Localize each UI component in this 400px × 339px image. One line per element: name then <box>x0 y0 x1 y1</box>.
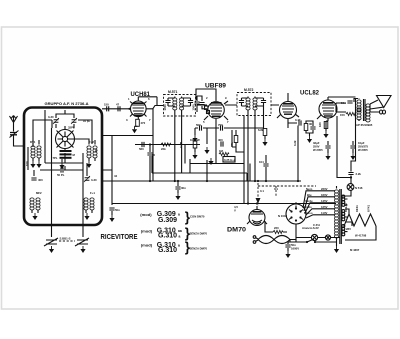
lamp <box>311 234 330 240</box>
trimmer capacitor CT2 <box>71 118 77 124</box>
ground under T4 <box>334 246 339 253</box>
svg-text:750: 750 <box>218 123 223 127</box>
tube V1 pin wires <box>57 126 90 152</box>
capacitor grid coupling <box>199 103 204 105</box>
UCH81 anode bar <box>133 102 144 104</box>
wires 2.2M branch <box>175 145 185 182</box>
T4 core <box>340 189 342 244</box>
wires UBF89 cathode down <box>207 128 216 164</box>
svg-text:0.47: 0.47 <box>295 118 301 122</box>
wire T1-T2 row <box>197 104 207 106</box>
svg-text:N 1043: N 1043 <box>278 214 287 218</box>
UCH81 grid lines <box>132 105 144 114</box>
capacitor 2.2k line <box>348 173 353 175</box>
svg-text:0.25 H+3: 0.25 H+3 <box>224 158 236 162</box>
T1 primary coil <box>173 98 177 110</box>
svg-text:CON DM70: CON DM70 <box>190 214 205 218</box>
T1 primary cap 1000 <box>165 101 170 103</box>
wires capacitor 104 <box>265 155 267 181</box>
capacitor 400 <box>31 178 36 180</box>
wire antenna to RF box <box>10 131 25 147</box>
wire UCH81 anode to IF1 <box>138 97 163 109</box>
tube UCL82 pentode envelope <box>319 100 337 118</box>
ground UCH81 cathode <box>132 126 137 133</box>
potentiometer 0.25 H+3 box <box>223 157 235 163</box>
switch lever <box>307 239 314 242</box>
T1 secondary cap 1000 <box>188 101 193 103</box>
ground under L3 <box>59 162 64 169</box>
wires T2 down <box>244 106 264 203</box>
capacitor 50pF <box>61 167 63 172</box>
svg-text:1M: 1M <box>219 149 224 153</box>
capacitor 30n <box>175 187 180 189</box>
UCH81 cathode bar <box>134 115 143 117</box>
wires pentode anode <box>328 97 356 112</box>
svg-text:Nero: Nero <box>306 187 313 191</box>
secondary winding column <box>342 195 345 236</box>
T3 core <box>364 99 366 121</box>
heater distribution wires <box>344 214 376 226</box>
resistor 150 <box>346 112 356 115</box>
wire 50n to ground <box>287 248 289 251</box>
wires resistor 47k <box>232 130 244 152</box>
capacitor 104 <box>263 164 268 166</box>
ground under CV2 <box>80 246 85 253</box>
svg-text:M.572: M.572 <box>244 88 254 92</box>
wire AVC bus <box>102 180 301 182</box>
ground under 50n <box>109 215 114 222</box>
svg-text:110V: 110V <box>321 211 328 215</box>
svg-text:7PL: 7PL <box>53 156 58 160</box>
wire to output transformer <box>354 99 358 103</box>
wire cap 50 to rail <box>149 156 151 181</box>
wires selector taps <box>303 191 335 218</box>
mains cord <box>253 236 296 245</box>
coil L5b <box>90 198 94 210</box>
ground under L2 <box>86 161 91 168</box>
wire network inside RF box <box>28 110 92 225</box>
resistor 22k <box>161 143 171 146</box>
T1 internal wires <box>168 97 191 107</box>
svg-text:W 2055: W 2055 <box>313 148 323 152</box>
ground UBF89 <box>204 147 209 154</box>
wires mains branch <box>296 224 340 242</box>
svg-text:(mod): (mod) <box>141 229 152 233</box>
wire to cap 50 <box>149 145 151 153</box>
wire box to UCH81 grid <box>102 108 131 110</box>
wires 10uF <box>352 141 354 153</box>
UCH81 pin stubs <box>130 97 147 120</box>
tube UBF89 envelope <box>208 102 225 119</box>
T4 secondary winding <box>342 195 345 198</box>
wire 50n to ground <box>111 211 113 215</box>
T1 secondary coil <box>180 98 184 110</box>
wire box output <box>102 136 153 206</box>
ground under L1a <box>30 161 35 168</box>
svg-text:DM70: DM70 <box>227 228 247 234</box>
UBF89 pin wires <box>196 89 228 128</box>
svg-text:6.8k: 6.8k <box>258 128 264 132</box>
capacitor 560 <box>142 142 144 147</box>
svg-text:30: 30 <box>309 122 313 126</box>
svg-text:50: 50 <box>94 148 98 152</box>
capacitor 750 <box>221 125 223 130</box>
wires RC cathode network <box>306 121 313 136</box>
UCL82 pentode grid lines <box>322 105 335 114</box>
ground under L4 <box>32 213 37 220</box>
wire verticals to AVC bus <box>153 108 207 181</box>
capacitor AVC <box>194 102 199 104</box>
ground cathode network <box>307 136 312 143</box>
wire DM70 to selector <box>265 221 287 232</box>
selector contact spokes <box>289 206 303 220</box>
pilot lamp <box>311 234 317 240</box>
wire 160 to ground <box>325 129 327 132</box>
power transformer T4 primary winding <box>334 190 338 202</box>
svg-text:a: a <box>179 234 181 238</box>
resistor 30 <box>304 124 308 131</box>
wires 32uF <box>327 141 329 153</box>
dashed wires DM70 option <box>258 183 316 206</box>
speaker cone <box>377 96 392 108</box>
svg-text:6.3V: 6.3V <box>313 226 319 230</box>
svg-text:(mod): (mod) <box>141 244 152 248</box>
ground under L1b <box>36 161 41 168</box>
trimmer capacitor CT3 3-30 <box>84 176 90 182</box>
svg-text:Verde: Verde <box>305 199 313 203</box>
svg-text:30n: 30n <box>181 186 186 190</box>
T2 secondary coil <box>253 98 257 110</box>
node heater feed <box>350 176 352 178</box>
heater return wires <box>343 199 376 240</box>
output transformer T3 primary <box>357 100 361 112</box>
ground under 10uF <box>350 153 355 160</box>
UCL82 pentode pin wires <box>317 97 340 129</box>
svg-text:3-30: 3-30 <box>48 115 54 119</box>
coil L2a <box>87 146 91 158</box>
capacitor 50 <box>147 153 152 155</box>
coil L4b <box>36 198 40 210</box>
UBF89 cathode bar <box>212 116 221 118</box>
T2 primary coil <box>246 98 250 110</box>
wire heater feed vertical <box>337 116 351 178</box>
wire heater bus <box>112 203 336 205</box>
svg-text:0.22: 0.22 <box>293 140 297 146</box>
coil L2b <box>93 146 97 158</box>
RF unit box outline <box>24 108 102 226</box>
antenna <box>10 116 25 147</box>
IF transformer T1 M.571 box <box>164 95 196 117</box>
svg-text:1600V: 1600V <box>291 247 299 251</box>
svg-text:G.309: G.309 <box>158 217 177 224</box>
voltage selector N1043 body <box>286 204 306 224</box>
switch contact a <box>306 241 308 243</box>
svg-text:(mod): (mod) <box>140 213 151 217</box>
voltage selector <box>286 204 306 224</box>
ballast N 516 <box>347 184 354 191</box>
svg-text:AP 65/10995: AP 65/10995 <box>356 123 373 127</box>
tube V1 inside box <box>53 126 90 170</box>
svg-text:160V: 160V <box>321 193 328 197</box>
svg-text:0.1: 0.1 <box>260 189 264 193</box>
converter tube V1 envelope <box>56 130 75 149</box>
svg-text:400: 400 <box>38 178 43 182</box>
svg-text:a: a <box>178 244 180 248</box>
T2 secondary cap <box>261 101 266 103</box>
mains plug <box>253 236 256 239</box>
svg-text:UCL82: UCL82 <box>300 91 320 97</box>
capacitor cathode bypass <box>310 127 315 129</box>
svg-text:Giallo: Giallo <box>304 205 312 209</box>
svg-text:10n: 10n <box>341 101 346 105</box>
ground under 10k <box>192 152 197 159</box>
svg-text:2.2M: 2.2M <box>179 141 183 148</box>
resistor 160 cathode <box>324 122 328 129</box>
electrolytic capacitor 32uF <box>325 146 330 148</box>
svg-text:220V: 220V <box>321 187 328 191</box>
svg-text:500: 500 <box>196 123 201 127</box>
svg-text:MF2: MF2 <box>36 191 42 195</box>
wires coil L1 <box>33 140 39 161</box>
node UCH81 grid <box>128 108 130 110</box>
svg-text:aa: aa <box>178 229 182 233</box>
svg-text:150: 150 <box>340 113 345 117</box>
svg-text:44: 44 <box>114 174 118 178</box>
wire 0.22 net down <box>297 126 299 182</box>
coil L5a <box>84 198 88 210</box>
svg-text:F+1: F+1 <box>90 191 95 195</box>
svg-text:Arancio: Arancio <box>302 226 313 230</box>
capacitor 47 <box>118 106 120 111</box>
capacitor 500 <box>200 125 202 130</box>
capacitor 10n tone <box>347 101 352 103</box>
resistor 1M volume <box>219 152 229 155</box>
wire 6.8k to ground <box>264 136 266 140</box>
wire diode return <box>195 128 264 135</box>
svg-text:GRUPPO A.F. N 2736-A: GRUPPO A.F. N 2736-A <box>45 102 90 106</box>
T3 secondary <box>366 104 370 116</box>
selector contacts <box>295 207 297 209</box>
wire 10k to ground <box>194 148 196 152</box>
svg-text:125V: 125V <box>321 205 328 209</box>
wire AVC rail <box>135 144 200 146</box>
svg-text:470: 470 <box>141 121 146 125</box>
DM70 <box>256 183 317 206</box>
wire B+ vertical <box>351 99 356 167</box>
speaker voice coil b <box>383 110 386 114</box>
DM70 pin wires <box>247 206 267 224</box>
variable capacitor CV2 <box>75 238 89 246</box>
svg-text:1000: 1000 <box>192 104 196 111</box>
svg-text:50n: 50n <box>115 208 120 212</box>
svg-text:145V: 145V <box>321 199 328 203</box>
T3 leads <box>358 99 360 122</box>
mains cord twisted pair <box>258 236 290 244</box>
svg-text:220: 220 <box>274 226 279 230</box>
capacitor 400 <box>221 141 223 146</box>
svg-text:104: 104 <box>259 160 264 164</box>
ground under 30n <box>175 193 180 200</box>
UBF89 diode plate 1 <box>205 106 208 109</box>
UBF89 diode plate 2 <box>207 111 210 114</box>
svg-text:N 516: N 516 <box>355 186 363 190</box>
T2 primary cap <box>239 101 244 103</box>
svg-text:28V: 28V <box>346 227 351 231</box>
capacitor 50n <box>109 208 114 210</box>
wires T1 to AVC rail <box>175 110 182 174</box>
junction dots AVC bus <box>149 180 151 182</box>
svg-text:47: 47 <box>116 103 120 107</box>
resistor 10k 1W <box>193 141 197 148</box>
svg-text:G.310: G.310 <box>158 233 177 240</box>
svg-text:S.BB1-S: S.BB1-S <box>60 237 71 241</box>
wires triode cathode <box>288 123 297 128</box>
wires coil L5 <box>86 210 92 213</box>
svg-text:RICEVITORE: RICEVITORE <box>101 232 138 241</box>
wires box to tuning gang <box>52 225 84 237</box>
tube UCH81 envelope <box>131 101 147 117</box>
ground under 6.8k <box>262 139 267 146</box>
wire voice coil <box>370 104 379 112</box>
ground diode return <box>192 135 197 142</box>
tube V1 center electrode <box>62 136 67 141</box>
resistor 47k <box>234 136 238 143</box>
wire oscillator row <box>40 169 83 171</box>
wires coil L4 <box>32 210 38 213</box>
wires T2 in/out <box>225 104 279 106</box>
UCL82 triode grid lines <box>271 93 299 124</box>
svg-text:W 41708: W 41708 <box>355 234 367 238</box>
speaker voice coil a <box>380 110 383 114</box>
svg-text:SENZA DM70: SENZA DM70 <box>190 247 208 251</box>
ground under 160 <box>323 131 328 138</box>
antenna trimmer capacitor <box>10 133 17 135</box>
capacitor 150 <box>107 106 109 111</box>
UCL82 pentode cathode bar <box>324 115 333 116</box>
svg-text:560: 560 <box>139 147 144 151</box>
gang link dashed <box>59 240 75 242</box>
svg-text:G.310: G.310 <box>158 247 177 254</box>
ground under 50n 1600V <box>285 251 290 258</box>
tube V1 electrode spokes <box>58 132 73 147</box>
trimmer capacitor CT1 3-30 <box>53 118 59 124</box>
tube DM70 envelope <box>249 210 265 226</box>
coil L4a <box>30 198 34 210</box>
ground under L5 <box>84 213 89 220</box>
DM70 anode bar <box>253 211 262 213</box>
arrow to DM70 <box>256 198 261 204</box>
wire detector network <box>152 156 250 204</box>
oscillator coil block L3 <box>60 150 72 152</box>
svg-text:160: 160 <box>318 122 322 127</box>
antenna mast symbol <box>10 116 18 132</box>
electrolytic capacitor 10uF <box>350 146 355 148</box>
wire L3 to ground <box>61 159 63 162</box>
ground detector <box>208 158 213 165</box>
tube UCL82 triode envelope <box>280 102 297 119</box>
svg-text:2.2k: 2.2k <box>356 172 362 176</box>
coil L1b <box>37 146 41 158</box>
ground under 32uF <box>325 153 330 160</box>
svg-text:a: a <box>178 213 180 217</box>
power transformer <box>334 186 341 244</box>
wire T4 to ground <box>336 240 338 246</box>
svg-text:50 PL: 50 PL <box>57 173 65 177</box>
wire UCH81 cathode <box>135 119 138 126</box>
IF transformer T2 M.572 box <box>237 93 271 116</box>
wires coil L2 <box>89 140 95 161</box>
DM70 electrodes <box>251 214 263 224</box>
model list <box>140 211 182 254</box>
node AVC junction <box>149 143 151 145</box>
UCL82 pentode anode bar <box>323 102 334 104</box>
svg-text:0.1: 0.1 <box>274 187 278 191</box>
svg-text:Blu: Blu <box>307 193 312 197</box>
tuning gang <box>44 225 89 253</box>
UBF89 anode bar <box>211 102 222 104</box>
capacitor 50n 1600V <box>285 245 290 247</box>
svg-text:UF41: UF41 <box>355 205 359 212</box>
speaker leads <box>370 100 384 109</box>
svg-text:M 4367: M 4367 <box>350 248 360 252</box>
svg-text:UCL82: UCL82 <box>344 203 348 212</box>
resistor 220 <box>273 230 283 233</box>
svg-text:M.571: M.571 <box>168 90 178 94</box>
T4 primary leads <box>336 186 338 240</box>
svg-text:V: V <box>234 209 236 213</box>
UBF89 grid lines <box>210 105 223 114</box>
UCL82 triode cathode bar <box>284 114 292 115</box>
svg-text:22k: 22k <box>161 147 166 151</box>
wires 30n <box>177 181 179 193</box>
svg-text:UY41: UY41 <box>367 205 371 212</box>
wires trimmer row <box>56 110 74 128</box>
svg-text:W 2055: W 2055 <box>358 148 368 152</box>
svg-text:Rosso: Rosso <box>304 211 313 215</box>
svg-text:150: 150 <box>104 103 109 107</box>
capacitor 0.47 coupling <box>299 120 301 125</box>
ground under CV1 <box>49 246 54 253</box>
resistor 470 cathode UCH81 <box>136 119 140 126</box>
variable capacitor CV1 <box>44 238 58 246</box>
switch contact b <box>314 241 316 243</box>
wire AVC down <box>196 105 198 112</box>
svg-text:400: 400 <box>218 138 223 142</box>
UCL82 triode anode bar <box>283 103 293 105</box>
fuse lamp <box>325 235 330 240</box>
svg-text:3-30: 3-30 <box>91 178 97 182</box>
wire T1 to UBF89 grid <box>197 96 207 109</box>
svg-text:SENZA DM70: SENZA DM70 <box>190 232 208 236</box>
svg-text:1000: 1000 <box>163 104 167 111</box>
wires N516 branch <box>341 166 351 196</box>
resistor 6.8k <box>263 129 267 136</box>
svg-text:47k: 47k <box>230 142 234 147</box>
coil L1a <box>31 146 35 158</box>
